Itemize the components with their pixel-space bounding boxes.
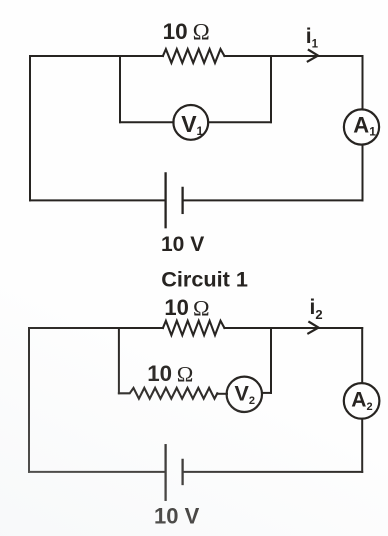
- wire: C1 inner branch right horizontal: [208, 121, 271, 123]
- wire: C1 left side: [29, 56, 31, 200]
- svg-text:10: 10: [164, 295, 188, 320]
- svg-text:Ω: Ω: [177, 361, 194, 386]
- svg-text:10: 10: [147, 361, 172, 386]
- svg-text:Ω: Ω: [193, 295, 210, 320]
- ammeter A2 circle: [344, 383, 380, 419]
- resistor R2 10Ω zigzag: [163, 321, 225, 335]
- svg-text:10 V: 10 V: [161, 233, 204, 256]
- wire: C2 inner branch right vertical: [270, 328, 272, 393]
- wire: C2 left side: [28, 328, 30, 472]
- arrow current i2: [308, 322, 318, 333]
- voltmeter V1 circle: [173, 105, 208, 140]
- battery B1 short plate: [181, 188, 183, 213]
- wire: C2 top-right segment: [224, 327, 362, 329]
- wire: C1 right side upper: [362, 56, 364, 110]
- wire: C1 bottom-right segment: [184, 199, 363, 201]
- wire: C2 right side upper: [361, 328, 363, 383]
- wire: C2 top-left segment: [29, 327, 163, 329]
- battery B1 long plate: [164, 173, 166, 227]
- battery B2 short plate: [181, 460, 183, 484]
- wire: C1 inner branch left vertical: [119, 56, 121, 122]
- wire: C2 right side lower: [361, 419, 363, 472]
- wire: C1 top-left segment: [30, 55, 163, 57]
- battery B2 long plate: [164, 445, 166, 500]
- wire: C1 right side lower: [362, 145, 364, 201]
- resistor R1 10Ω zigzag: [163, 49, 225, 63]
- arrow current i1: [308, 50, 318, 61]
- voltmeter V2 circle: [227, 377, 262, 412]
- wire: C1 top-right segment: [224, 55, 362, 57]
- wire: C2 bottom-left segment: [29, 471, 165, 473]
- ammeter A1 circle: [344, 109, 379, 144]
- wire: C1 bottom-left segment: [30, 199, 165, 201]
- svg-text:Circuit 1: Circuit 1: [161, 267, 248, 292]
- wire: R3 to V2: [217, 393, 227, 395]
- wire: C1 inner branch right vertical: [270, 56, 272, 122]
- resistor R3 10Ω zigzag inner: [119, 388, 217, 399]
- svg-text:10: 10: [163, 19, 188, 44]
- wire: C2 bottom-right segment: [184, 471, 363, 473]
- wire: C2 inner branch left vertical: [118, 328, 120, 393]
- wire: C1 inner branch left horizontal: [120, 121, 174, 123]
- svg-text:Ω: Ω: [193, 19, 210, 44]
- wire: V2 to inner right vertical: [262, 392, 271, 394]
- svg-text:10 V: 10 V: [154, 504, 200, 529]
